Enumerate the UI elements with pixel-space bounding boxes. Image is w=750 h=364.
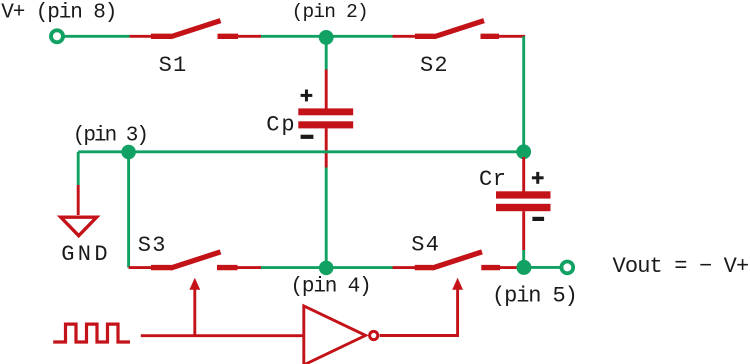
label - of Cp bbox=[301, 135, 314, 139]
wire inverter output bbox=[380, 289, 458, 336]
svg-text:Cp: Cp bbox=[266, 113, 296, 138]
svg-text:(pin 4): (pin 4) bbox=[291, 276, 371, 299]
ground bbox=[61, 217, 97, 236]
terminal pin 8 bbox=[51, 30, 63, 42]
wire bottom from S3 to S4 through pin4 node bbox=[261, 266, 393, 269]
wire clock branch up to S3 bbox=[193, 289, 196, 336]
svg-text:(pin 5): (pin 5) bbox=[492, 283, 577, 308]
wire Cr lead green part to pin5 node bbox=[522, 250, 525, 267]
wire Cp down to pin4 node (green part) bbox=[325, 168, 328, 268]
wire right vertical from S2 corner down to node bbox=[522, 36, 525, 152]
terminal pin 5 output bbox=[561, 262, 573, 274]
node right junction at Cr top bbox=[516, 144, 531, 159]
wire pin3 horizontal bbox=[78, 150, 524, 153]
wire GND branch green part bbox=[77, 152, 80, 185]
label - of Cr bbox=[532, 217, 544, 221]
wire GND branch red part bbox=[77, 185, 80, 215]
label + of Cr bbox=[532, 172, 544, 184]
clock waveform symbol bbox=[53, 324, 130, 342]
node pin 5 junction bbox=[516, 260, 531, 275]
switch S2 bbox=[393, 21, 526, 37]
svg-text:S3: S3 bbox=[138, 233, 167, 258]
svg-text:S1: S1 bbox=[159, 53, 188, 78]
capacitor Cr bbox=[496, 191, 551, 211]
node pin 4 junction bbox=[319, 261, 334, 276]
switch S3 bbox=[129, 252, 261, 268]
switch S1 bbox=[130, 21, 262, 37]
wire Cp top lead (red part) bbox=[325, 70, 328, 110]
node pin 2 junction bbox=[319, 30, 334, 45]
switch S4 bbox=[393, 252, 518, 268]
label + of Cp bbox=[301, 90, 313, 102]
svg-text:S4: S4 bbox=[411, 233, 440, 258]
wire pin5 node to output terminal bbox=[531, 266, 560, 269]
wire Cr top lead (red) bbox=[522, 157, 525, 192]
wire Cr bottom lead (red) bbox=[522, 211, 525, 250]
arrow to S4 bbox=[452, 278, 463, 290]
wire top from S1 to S2 through pin2 node bbox=[261, 35, 393, 38]
svg-text:GND: GND bbox=[61, 242, 111, 267]
wire clock input to inverter bbox=[141, 334, 304, 337]
node pin 3 junction bbox=[121, 145, 136, 160]
svg-text:Cr: Cr bbox=[479, 167, 507, 192]
capacitor Cp bbox=[298, 108, 353, 128]
wire Cp bottom lead (red part) bbox=[325, 128, 328, 167]
svg-text:Vout = − V+: Vout = − V+ bbox=[613, 254, 749, 279]
svg-text:(pin 3): (pin 3) bbox=[73, 125, 147, 148]
inverter U1 bbox=[304, 306, 366, 364]
inverter bubble bbox=[370, 331, 378, 339]
wire pin2 node down to Cp (green part) bbox=[325, 42, 328, 70]
wire left vertical pin3 node down to S3 bbox=[127, 152, 130, 268]
arrow to S3 bbox=[189, 278, 200, 290]
svg-text:(pin 2): (pin 2) bbox=[292, 1, 368, 23]
svg-text:S2: S2 bbox=[420, 53, 449, 78]
wire top from pin8 terminal to S1 bbox=[64, 35, 129, 38]
svg-text:V+ (pin 8): V+ (pin 8) bbox=[1, 2, 116, 25]
